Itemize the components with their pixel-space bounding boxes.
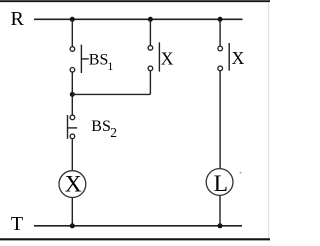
pushbutton BS1 actuator tick [81,58,88,60]
wire left branch: rail to BS1 [71,19,73,46]
junction top-middle [148,17,153,22]
svg-text:BS: BS [91,118,111,135]
pushbutton BS1 contact circles [70,47,75,52]
svg-text:1: 1 [107,59,113,73]
wire right branch: rail to contact X2 [219,19,221,46]
wire bottom rail T [34,225,242,227]
wire BS2 to coil X [71,139,73,171]
svg-text:L: L [214,171,228,197]
pushbutton BS2 contact circles [70,115,75,120]
junction mid-left node A [70,92,75,97]
border top line [0,0,270,2]
contact X2 circles [218,46,223,51]
contact X2 bar [228,43,230,71]
junction top-right [218,17,223,22]
pushbutton BS2 actuator tick [68,127,78,129]
svg-text:X: X [161,48,174,68]
stray speck artifact [240,172,242,174]
svg-text:BS: BS [89,51,109,68]
svg-text:T: T [11,213,23,235]
junction bottom-right [218,223,223,228]
wire top rail R [34,18,243,20]
border bottom line [0,238,270,240]
junction top-left [70,17,75,22]
border right line [268,2,270,238]
pushbutton BS1 bar [80,45,82,73]
pushbutton BS2 bar [67,115,69,139]
junction bottom-left [70,223,75,228]
contact X1 bar [158,42,160,71]
svg-text:X: X [232,48,245,68]
svg-text:R: R [11,8,25,30]
contact X1 circles [148,46,153,51]
wire contact X1 down [149,71,151,95]
wire contact X2 to lamp L [219,71,221,169]
wire middle branch horizontal to node A [72,93,150,95]
svg-text:2: 2 [110,125,117,140]
lamp L [206,169,233,196]
wire BS1 to node A to BS2 [71,72,73,115]
svg-text:X: X [65,171,82,197]
wire coil X to bottom rail [71,198,73,226]
relay coil X [59,171,86,198]
wire middle branch: rail to contact X1 [149,19,151,45]
wire lamp L to bottom rail [219,196,221,226]
